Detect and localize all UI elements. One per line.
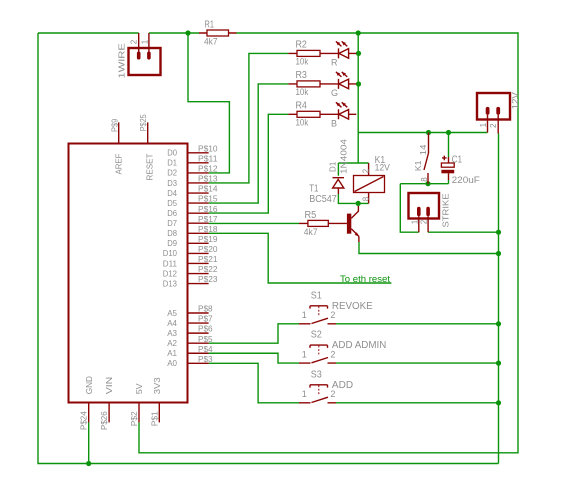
svg-text:D2: D2 [167, 169, 177, 178]
svg-text:A4: A4 [167, 319, 177, 328]
svg-text:5V: 5V [134, 383, 144, 394]
svg-text:1: 1 [479, 122, 488, 127]
svg-text:P$20: P$20 [198, 245, 218, 254]
svg-text:14: 14 [419, 144, 428, 155]
svg-text:P$15: P$15 [198, 195, 218, 204]
svg-text:P$23: P$23 [198, 275, 218, 284]
svg-text:2: 2 [362, 168, 371, 173]
svg-text:P$17: P$17 [198, 215, 218, 224]
svg-text:1: 1 [141, 39, 150, 44]
svg-text:P$13: P$13 [198, 175, 218, 184]
svg-text:2: 2 [330, 310, 335, 320]
svg-text:R5: R5 [305, 210, 317, 221]
svg-text:D4: D4 [167, 189, 177, 198]
svg-text:A2: A2 [167, 339, 177, 348]
svg-text:A1: A1 [167, 349, 177, 358]
svg-text:R4: R4 [296, 100, 308, 111]
svg-text:D10: D10 [163, 249, 178, 258]
svg-text:P$1: P$1 [151, 411, 160, 426]
svg-text:8: 8 [361, 196, 370, 201]
svg-text:R3: R3 [296, 70, 308, 81]
svg-text:D3: D3 [167, 179, 177, 188]
svg-text:A0: A0 [167, 359, 177, 368]
svg-text:R2: R2 [296, 39, 308, 50]
svg-text:D11: D11 [163, 259, 178, 268]
svg-text:C1: C1 [452, 155, 463, 166]
svg-text:D8: D8 [167, 229, 177, 238]
svg-text:P$26: P$26 [100, 411, 109, 430]
svg-text:ADD ADMIN: ADD ADMIN [332, 340, 386, 351]
svg-text:D12: D12 [163, 269, 178, 278]
svg-text:D0: D0 [167, 149, 177, 158]
svg-text:STRIKE: STRIKE [442, 193, 451, 228]
svg-text:10k: 10k [296, 56, 309, 66]
svg-text:P$4: P$4 [198, 345, 213, 354]
svg-text:VIN: VIN [104, 377, 114, 395]
svg-text:1WIRE: 1WIRE [118, 42, 127, 78]
svg-text:D6: D6 [167, 209, 177, 218]
svg-text:220uF: 220uF [452, 175, 481, 185]
svg-text:2: 2 [420, 219, 429, 224]
svg-text:10k: 10k [296, 117, 309, 127]
svg-text:AREF: AREF [114, 154, 123, 175]
svg-text:P$24: P$24 [79, 411, 88, 430]
svg-text:P$6: P$6 [198, 325, 213, 334]
svg-text:To eth reset: To eth reset [340, 274, 390, 285]
svg-text:D7: D7 [167, 219, 177, 228]
svg-text:B: B [331, 118, 337, 128]
svg-text:12V: 12V [375, 162, 390, 172]
svg-text:P$9: P$9 [110, 118, 119, 132]
svg-text:8: 8 [420, 177, 429, 182]
svg-text:D13: D13 [163, 279, 178, 288]
svg-text:K1: K1 [414, 160, 423, 171]
svg-text:P$18: P$18 [198, 225, 218, 234]
svg-text:1: 1 [302, 389, 307, 399]
svg-text:P$25: P$25 [139, 114, 148, 131]
svg-text:P$19: P$19 [198, 235, 218, 244]
svg-text:1: 1 [410, 219, 419, 224]
svg-text:REVOKE: REVOKE [332, 301, 373, 312]
svg-text:D5: D5 [167, 199, 177, 208]
svg-text:1: 1 [302, 310, 307, 320]
svg-text:R1: R1 [205, 19, 215, 30]
svg-text:4k7: 4k7 [304, 227, 318, 237]
svg-text:2: 2 [330, 349, 335, 359]
svg-text:2: 2 [330, 389, 335, 399]
svg-text:G: G [331, 88, 338, 98]
svg-text:RESET: RESET [145, 154, 154, 181]
svg-text:2: 2 [130, 39, 139, 44]
svg-text:T1: T1 [309, 184, 319, 195]
svg-text:A3: A3 [167, 329, 177, 338]
svg-text:GND: GND [84, 376, 94, 394]
svg-text:P$7: P$7 [198, 315, 213, 324]
svg-text:12V: 12V [511, 92, 520, 110]
svg-text:P$14: P$14 [198, 185, 218, 194]
svg-text:P$12: P$12 [198, 165, 218, 174]
svg-text:1: 1 [302, 349, 307, 359]
svg-text:S3: S3 [311, 369, 322, 380]
svg-text:P$5: P$5 [198, 335, 213, 344]
svg-text:A5: A5 [167, 309, 177, 318]
svg-text:P$3: P$3 [198, 355, 213, 364]
svg-text:D1: D1 [167, 159, 177, 168]
svg-text:S2: S2 [311, 330, 322, 341]
svg-text:P$8: P$8 [198, 305, 213, 314]
svg-text:P$2: P$2 [130, 411, 139, 426]
svg-text:P$16: P$16 [198, 205, 218, 214]
svg-text:3V3: 3V3 [152, 377, 162, 394]
svg-text:P$21: P$21 [198, 255, 218, 264]
svg-text:R: R [331, 57, 338, 67]
svg-text:10k: 10k [296, 87, 309, 97]
svg-text:D1: D1 [328, 161, 337, 172]
svg-text:P$22: P$22 [198, 265, 218, 274]
svg-text:D9: D9 [167, 239, 177, 248]
svg-text:P$11: P$11 [198, 154, 218, 163]
svg-text:4k7: 4k7 [204, 37, 218, 47]
svg-text:2: 2 [489, 123, 498, 128]
svg-text:S1: S1 [311, 290, 322, 301]
svg-text:1N4004: 1N4004 [340, 138, 349, 174]
svg-text:BC547: BC547 [309, 194, 337, 205]
svg-text:P$10: P$10 [198, 144, 218, 153]
